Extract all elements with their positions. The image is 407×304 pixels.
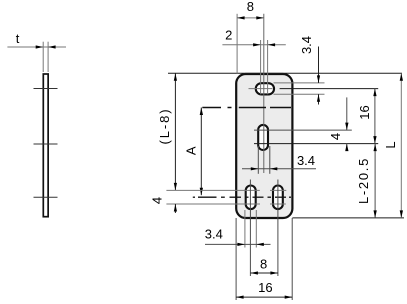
middle slot 3.4 dim: extension lines [257,146,259,174]
bottom slot right: vertical centerline [277,180,279,277]
dimension 16 right: dimension line [374,89,376,144]
svg-text:8: 8 [260,256,267,271]
svg-text:8: 8 [247,0,254,14]
svg-text:3.4: 3.4 [205,227,223,242]
bottom slots lower arc center line (left) [166,203,260,205]
middle slot 3.4 dim: dimension line [242,168,316,170]
dimension t: dimension line [7,46,66,48]
svg-text:3.4: 3.4 [299,36,314,54]
bottom slots upper arc center line (left) [166,189,259,191]
dimension t: extension lines [42,42,44,72]
bottom slots upper arc center line (right slot) [270,189,286,191]
svg-text:16: 16 [357,105,372,119]
bottom slots centerline dash-dot [193,196,291,198]
bottom 8 dim: dimension line [250,272,278,274]
bottom left slot (vertical obround) [246,186,256,210]
middle slot lower arc center line [254,143,378,145]
side view hole centermark tick 1 [34,88,58,90]
top slot bottom edge extension [274,93,325,95]
dimension 3.4 right (top slot width): dimension line segments [318,47,320,83]
top-left extension line (plate left edge up) [236,14,238,74]
svg-text:3.4: 3.4 [297,153,315,168]
dimension 4 right: arrow shafts [346,97,348,130]
plate vertical centerline [263,14,265,173]
svg-text:2: 2 [225,28,232,43]
side view hole centermark tick 3 [34,196,58,198]
svg-text:L: L [383,141,398,148]
svg-text:16: 16 [258,280,272,295]
bottom 3.4 dim: extension lines [244,210,246,248]
dimension A: dimension line [200,108,202,196]
dimension L: dimension line [400,73,402,218]
bottom 16 dim: dimension line [236,296,292,298]
svg-text:(L-8): (L-8) [157,108,172,145]
bottom slots lower arc center line (right slot) [270,203,286,205]
bottom slot left: vertical centerline [249,180,251,277]
dimension t: arrowheads [36,45,44,48]
dimension L-20.5: dimension line [374,144,376,218]
top slot top edge extension [274,82,325,84]
svg-text:L-20.5: L-20.5 [356,157,371,204]
bottom 16 dim: extension lines [235,218,237,300]
top slot horizontal centerline extended right [249,88,273,90]
middle slot (vertical obround) [258,125,268,150]
dimension 4 left: lower arrow shaft [174,204,176,213]
side view plate (edge-on) [43,74,48,217]
side view hole centermark tick 2 [34,143,58,145]
bottom-right extension line (plate bottom, for L and L-20.5) [292,217,404,219]
middle slot upper arc center line [254,129,352,131]
dimension 2: dimension line [222,44,285,46]
dimension 2: extension lines (top slot arc centers) [260,40,262,94]
top extension line (plate top, for L and L-8) [168,72,402,74]
dimension 8 top: dimension line [237,17,264,19]
dimension (L-8): dimension line with arrows [174,73,176,190]
svg-text:4: 4 [150,197,165,204]
svg-text:4: 4 [328,133,343,140]
top slot (horizontal obround) [256,83,274,94]
bottom right slot (vertical obround) [273,186,283,210]
svg-text:A: A [184,146,199,155]
bottom 3.4 dim: dimension line [205,243,271,245]
svg-text:t: t [16,31,20,46]
main view plate outline [236,74,292,218]
reference centerline (A datum) dash-dot [202,107,291,109]
